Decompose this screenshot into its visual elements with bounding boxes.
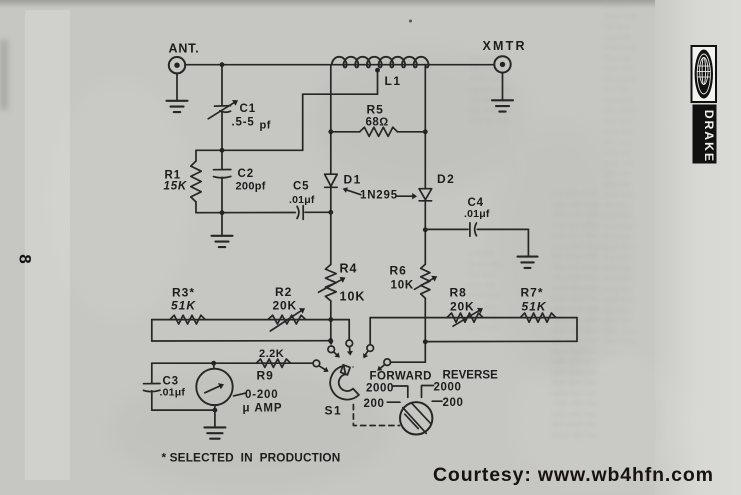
- svg-text:1N295: 1N295: [360, 190, 398, 202]
- svg-text:200: 200: [443, 397, 464, 409]
- svg-text:R4: R4: [340, 262, 358, 276]
- svg-text:μ AMP: μ AMP: [243, 403, 283, 415]
- svg-text:200pf: 200pf: [236, 181, 266, 193]
- svg-text:FORWARD: FORWARD: [370, 371, 432, 383]
- svg-text:R5: R5: [367, 103, 384, 117]
- svg-text:pf: pf: [260, 120, 271, 132]
- svg-text:XMTR: XMTR: [483, 39, 527, 53]
- svg-text:2.2K: 2.2K: [259, 348, 284, 360]
- svg-text:20K: 20K: [450, 300, 474, 314]
- svg-text:R2: R2: [275, 285, 292, 299]
- svg-text:R8: R8: [450, 286, 467, 300]
- svg-text:10K: 10K: [340, 290, 366, 304]
- svg-text:C2: C2: [238, 168, 255, 180]
- svg-text:REVERSE: REVERSE: [443, 370, 499, 382]
- svg-text:2000: 2000: [366, 383, 394, 395]
- svg-text:200: 200: [364, 398, 385, 410]
- svg-text:L1: L1: [385, 74, 402, 88]
- svg-text:.01μf: .01μf: [289, 194, 315, 206]
- svg-text:51K: 51K: [171, 299, 196, 313]
- svg-text:D2: D2: [437, 172, 455, 186]
- svg-text:Courtesy: www.wb4hfn.com: Courtesy: www.wb4hfn.com: [433, 464, 714, 486]
- svg-text:0-200: 0-200: [245, 389, 278, 401]
- svg-text:C1: C1: [240, 103, 257, 115]
- svg-text:15K: 15K: [164, 181, 188, 193]
- svg-text:C5: C5: [293, 181, 309, 193]
- svg-text:R7*: R7*: [521, 286, 544, 300]
- svg-text:R6: R6: [390, 264, 407, 278]
- svg-text:20K: 20K: [273, 299, 297, 313]
- svg-text:.5-5: .5-5: [232, 117, 255, 129]
- svg-text:51K: 51K: [522, 300, 547, 314]
- svg-text:DRAKE: DRAKE: [702, 110, 716, 163]
- svg-text:S1: S1: [325, 404, 343, 418]
- svg-text:8: 8: [16, 254, 35, 263]
- svg-text:R3*: R3*: [172, 286, 195, 300]
- svg-text:10K: 10K: [391, 280, 415, 292]
- svg-text:D1: D1: [344, 173, 362, 187]
- svg-text:.01μf: .01μf: [160, 387, 186, 399]
- svg-text:ANT.: ANT.: [169, 42, 200, 56]
- svg-text:.01μf: .01μf: [464, 208, 490, 220]
- svg-text:68Ω: 68Ω: [366, 117, 389, 129]
- svg-text:* SELECTED IN PRODUCTION: * SELECTED IN PRODUCTION: [162, 451, 341, 465]
- svg-text:2000: 2000: [434, 382, 462, 394]
- svg-text:R9: R9: [257, 369, 274, 383]
